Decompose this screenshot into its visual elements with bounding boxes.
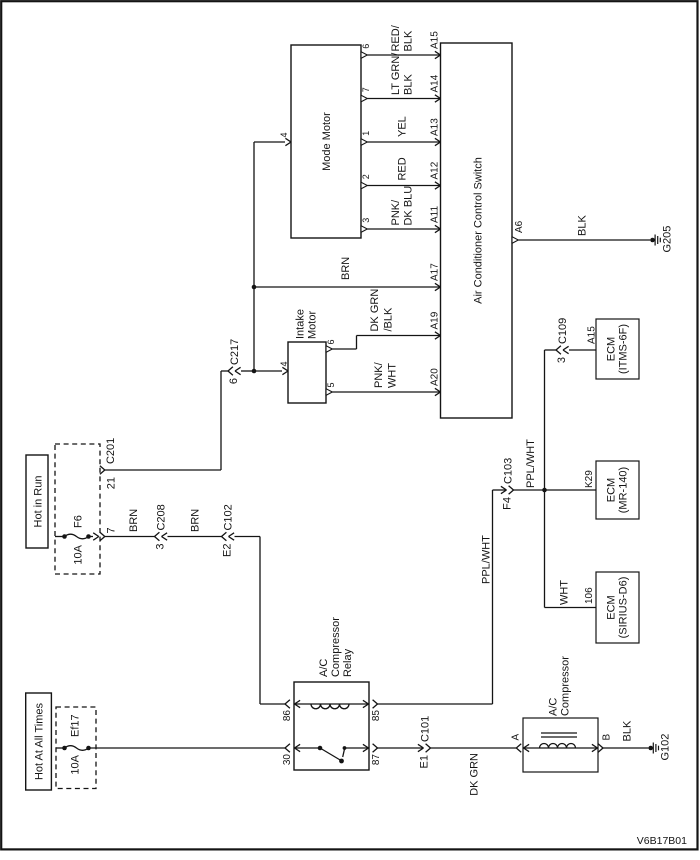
svg-text:WHT: WHT [559, 580, 571, 605]
svg-text:85: 85 [371, 710, 382, 722]
svg-text:C103: C103 [503, 458, 515, 484]
svg-text:Hot At All Times: Hot At All Times [34, 702, 46, 780]
svg-text:/BLK: /BLK [383, 307, 395, 332]
svg-text:ECM: ECM [606, 478, 618, 502]
svg-text:3: 3 [155, 544, 167, 550]
svg-text:F4: F4 [502, 497, 514, 510]
svg-text:ECM: ECM [606, 595, 618, 619]
svg-text:C217: C217 [229, 339, 241, 365]
svg-text:BRN: BRN [128, 509, 140, 532]
svg-text:LT GRN/: LT GRN/ [390, 52, 402, 95]
svg-text:Compressor: Compressor [560, 656, 572, 716]
svg-text:1: 1 [361, 131, 371, 136]
svg-text:86: 86 [282, 710, 293, 722]
svg-text:30: 30 [282, 754, 293, 766]
svg-text:A11: A11 [429, 206, 440, 223]
svg-text:(ITMS-6F): (ITMS-6F) [618, 324, 630, 374]
svg-text:Mode Motor: Mode Motor [321, 112, 333, 171]
svg-text:21: 21 [105, 477, 117, 489]
svg-text:WHT: WHT [387, 363, 399, 388]
svg-text:BLK: BLK [577, 215, 589, 236]
svg-text:2: 2 [361, 174, 371, 179]
svg-text:A19: A19 [429, 311, 440, 329]
svg-text:Intake: Intake [295, 309, 307, 339]
svg-text:BRN: BRN [340, 257, 352, 280]
svg-text:E1: E1 [419, 755, 431, 768]
svg-text:BLK: BLK [403, 74, 415, 95]
svg-text:7: 7 [361, 87, 371, 92]
svg-text:PNK/: PNK/ [390, 199, 402, 226]
svg-text:G205: G205 [662, 226, 674, 253]
svg-text:C201: C201 [105, 438, 117, 464]
svg-text:C109: C109 [557, 318, 569, 344]
svg-text:10A: 10A [73, 544, 85, 564]
svg-text:G102: G102 [660, 734, 672, 761]
svg-text:6: 6 [361, 44, 371, 49]
svg-text:Compressor: Compressor [330, 617, 342, 677]
svg-text:A13: A13 [429, 118, 440, 136]
svg-text:A15: A15 [586, 326, 597, 344]
svg-text:RED/: RED/ [390, 24, 402, 51]
svg-text:(MR-140): (MR-140) [618, 467, 630, 513]
svg-text:10A: 10A [70, 754, 82, 774]
svg-text:Motor: Motor [307, 311, 319, 339]
svg-text:106: 106 [584, 587, 595, 604]
svg-text:RED: RED [397, 157, 409, 180]
svg-text:A20: A20 [429, 368, 440, 386]
svg-text:4: 4 [279, 361, 289, 366]
svg-text:PPL/WHT: PPL/WHT [525, 439, 537, 488]
svg-text:3: 3 [556, 357, 568, 363]
svg-text:A14: A14 [429, 74, 440, 92]
svg-text:B: B [601, 734, 612, 741]
svg-text:7: 7 [105, 527, 117, 533]
svg-text:A17: A17 [429, 263, 440, 281]
svg-text:BLK: BLK [622, 720, 634, 741]
svg-text:4: 4 [279, 132, 289, 137]
svg-text:3: 3 [361, 218, 371, 223]
svg-text:5: 5 [326, 382, 336, 387]
svg-text:BLK: BLK [403, 30, 415, 51]
svg-text:C102: C102 [223, 504, 235, 530]
svg-text:BRN: BRN [190, 509, 202, 532]
svg-text:V6B17B01: V6B17B01 [637, 835, 687, 847]
svg-text:6: 6 [326, 339, 336, 344]
svg-text:DK BLU: DK BLU [403, 186, 415, 226]
svg-text:DK GRN: DK GRN [369, 289, 381, 332]
svg-text:(SIRIUS-D6): (SIRIUS-D6) [618, 577, 630, 639]
svg-text:Air Conditioner Control Switch: Air Conditioner Control Switch [473, 157, 485, 304]
svg-text:ECM: ECM [606, 337, 618, 361]
svg-text:F6: F6 [73, 515, 85, 528]
svg-text:E2: E2 [222, 544, 234, 557]
svg-text:A/C: A/C [318, 659, 330, 677]
svg-text:Ef17: Ef17 [70, 714, 82, 737]
svg-text:Relay: Relay [342, 648, 354, 677]
svg-text:A12: A12 [429, 161, 440, 179]
svg-text:PNK/: PNK/ [373, 361, 385, 388]
svg-text:A/C: A/C [548, 698, 560, 716]
svg-text:C101: C101 [420, 716, 432, 742]
svg-text:YEL: YEL [397, 116, 409, 137]
svg-text:Hot in Run: Hot in Run [33, 476, 45, 528]
svg-text:87: 87 [371, 754, 382, 766]
svg-text:C208: C208 [156, 504, 168, 530]
svg-text:A6: A6 [514, 220, 525, 233]
svg-text:DK GRN: DK GRN [469, 753, 481, 796]
svg-text:A: A [510, 734, 521, 741]
svg-text:6: 6 [228, 378, 240, 384]
svg-text:A15: A15 [429, 31, 440, 49]
svg-text:PPL/WHT: PPL/WHT [481, 535, 493, 584]
svg-text:K29: K29 [584, 470, 595, 488]
